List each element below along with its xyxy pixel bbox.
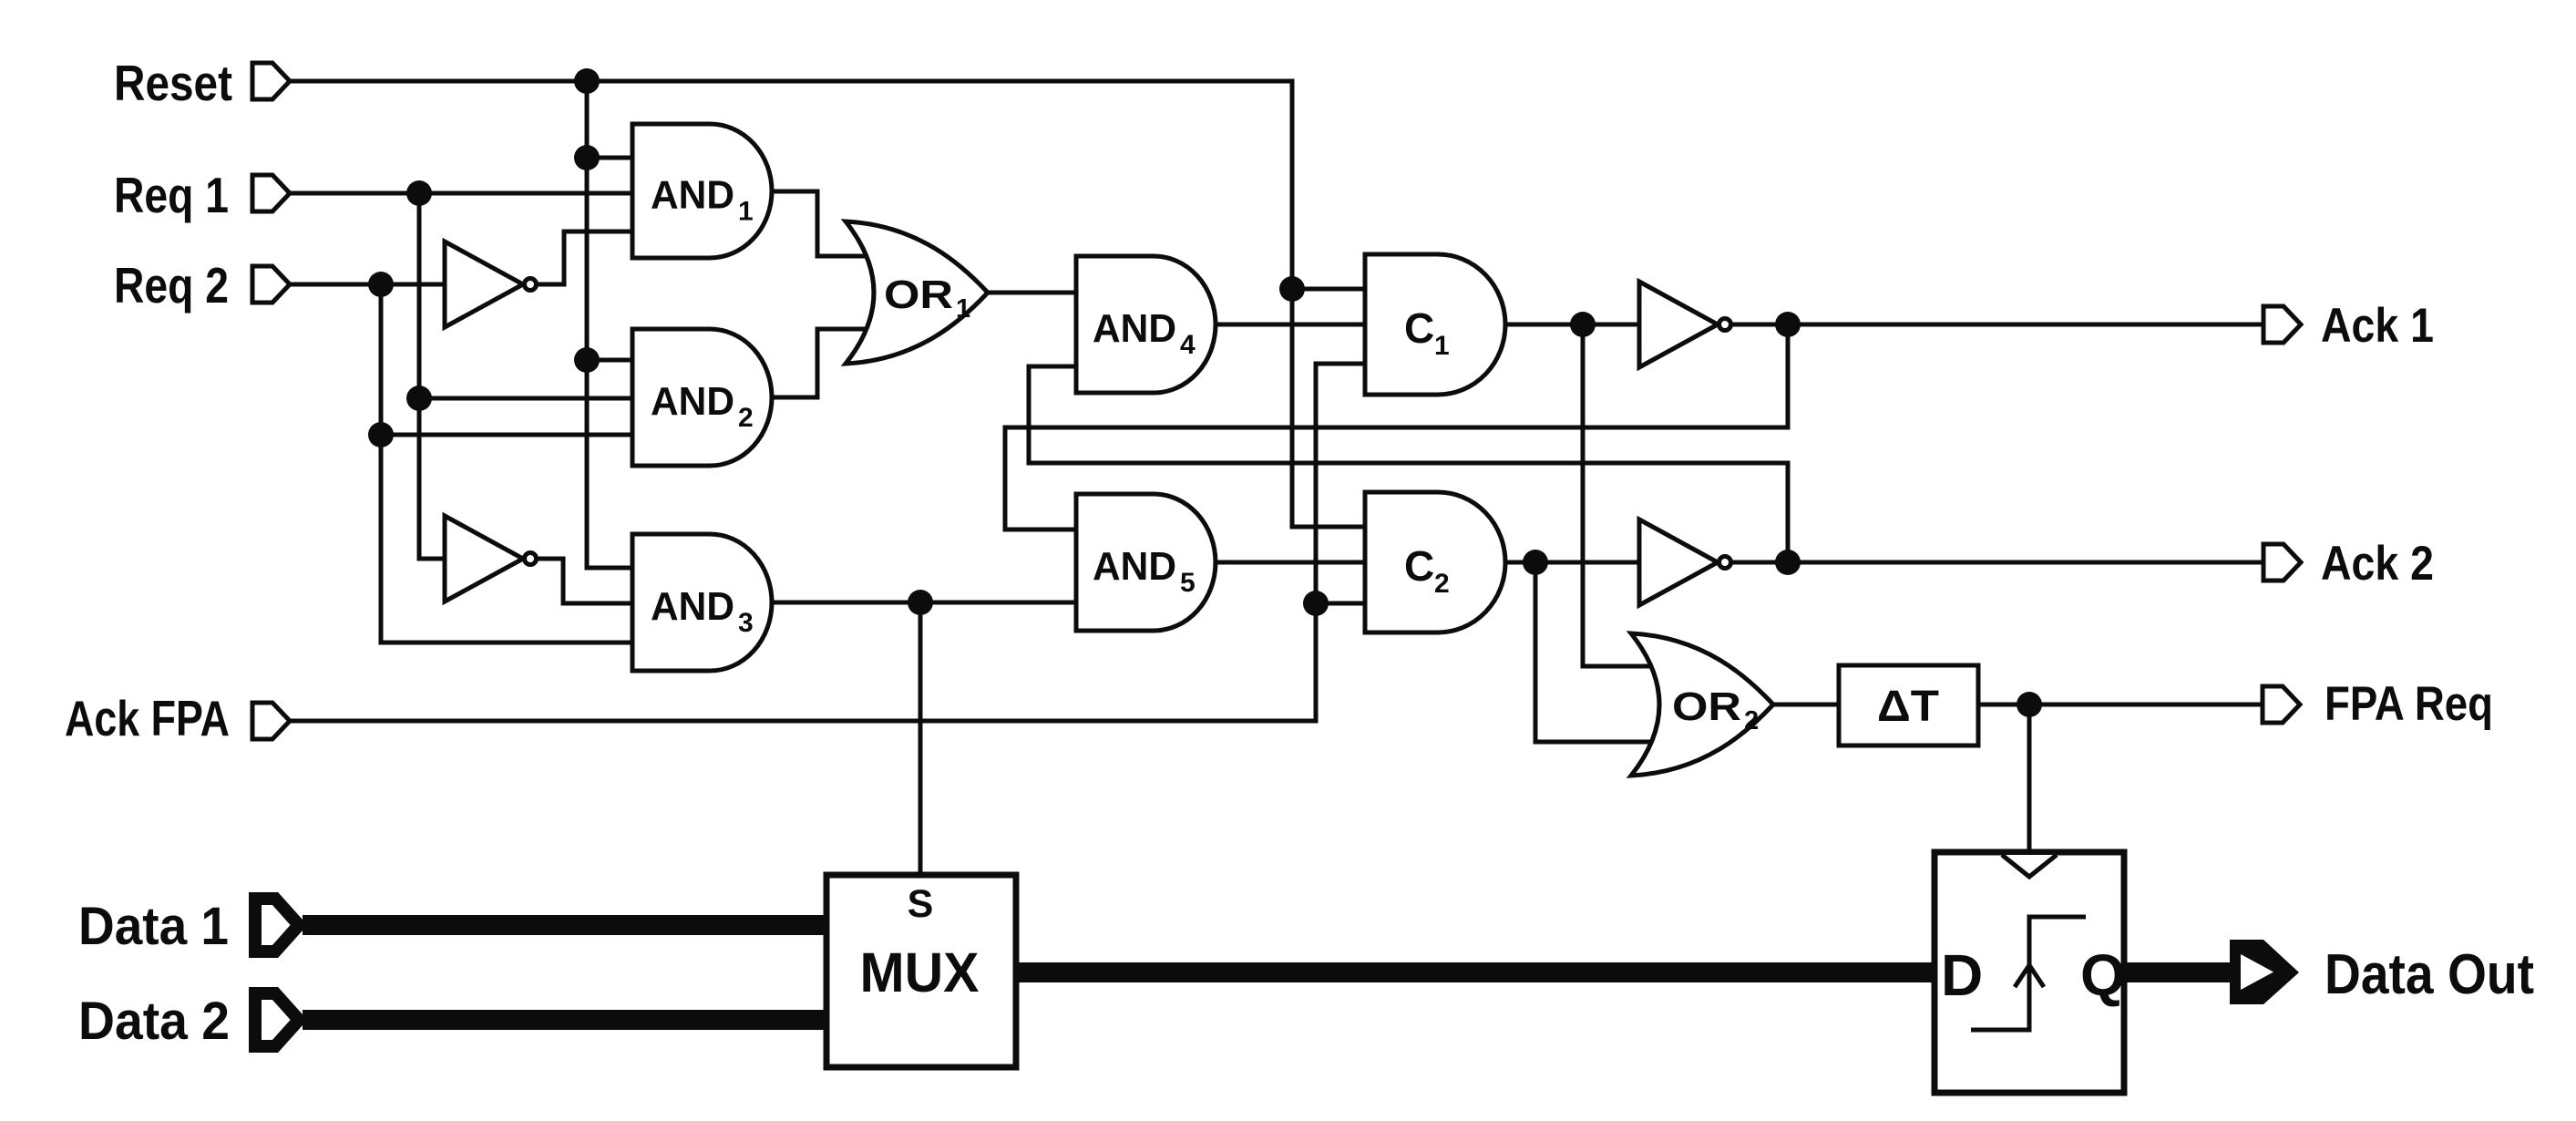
- svg-text:Req 1: Req 1: [114, 167, 229, 223]
- junction Reset vertical to C1 top input: [1279, 276, 1305, 302]
- inverter after Req 1 trunk (inv2): [445, 516, 537, 602]
- c-element C1: [1365, 254, 1505, 395]
- wire node Ack2: inverter4 output to Ack 2 port: [1730, 560, 2263, 565]
- svg-text:Reset: Reset: [114, 55, 232, 111]
- wire Ack FPA run with corner up to C1 bottom input: [290, 364, 1365, 721]
- junction Req 2 split: [368, 272, 394, 297]
- junction Req 2 trunk to AND2: [368, 422, 394, 447]
- d-flip-flop pin label Q: [2080, 942, 2126, 1008]
- wire Reset tap to AND2: [587, 358, 632, 363]
- wire AND5 output to C2 middle input: [1215, 560, 1366, 565]
- and-gate AND3: [632, 534, 772, 671]
- multiplexer MUX: [826, 875, 1016, 1067]
- bus Data 2 to MUX: [303, 1010, 826, 1030]
- wire inverter2 output to AND3: [536, 559, 632, 603]
- svg-text:MUX: MUX: [860, 941, 980, 1003]
- bus MUX output to flip-flop D input: [1016, 962, 1935, 982]
- bus Data 1 to MUX: [303, 915, 826, 935]
- svg-text:OR: OR: [884, 273, 953, 317]
- or-gate OR2: [1631, 633, 1773, 776]
- input port Req 2: [252, 266, 290, 303]
- output port Data Out (bus): [2230, 940, 2299, 1004]
- and-gate AND1: [632, 124, 772, 258]
- wire Req 1 tap to AND2: [419, 396, 632, 401]
- junction Ack FPA vertical to C2 bottom input: [1303, 591, 1329, 616]
- junction Req 1 trunk to AND2: [406, 386, 432, 411]
- svg-text:AND: AND: [651, 584, 734, 629]
- wire node S: AND3 output down to MUX select: [919, 602, 923, 875]
- junction Ack2 node split to feedback: [1775, 550, 1801, 575]
- input port Reset: [252, 63, 290, 99]
- svg-text:2: 2: [738, 403, 754, 433]
- output port Ack 1: [2263, 306, 2301, 343]
- label Ack FPA: [65, 690, 230, 746]
- wire Req 2 tap to AND2: [381, 433, 632, 437]
- input port Data 1 (bus): [255, 899, 299, 951]
- delay element ΔT: [1839, 665, 1978, 746]
- junction Ack1 node split to feedback: [1775, 312, 1801, 337]
- inverter after C1 (inv3): [1639, 282, 1731, 367]
- svg-text:3: 3: [738, 608, 754, 638]
- bus flip-flop Q output to Data Out: [2124, 962, 2234, 982]
- svg-text:ΔT: ΔT: [1877, 683, 1939, 731]
- wire Reset vertical trunk to AND3 top input: [587, 81, 632, 568]
- junction C1 output split to OR2: [1570, 312, 1596, 337]
- junction Reset trunk to AND2: [574, 347, 600, 373]
- label Data 1: [78, 897, 229, 956]
- wire Ack2 feedback to AND4 bottom input: [1029, 366, 1788, 562]
- wire Ack FPA tap to C2 bottom input: [1316, 602, 1366, 606]
- svg-text:4: 4: [1180, 330, 1196, 360]
- svg-text:C: C: [1404, 542, 1434, 590]
- or-gate OR1: [846, 221, 988, 364]
- svg-text:OR: OR: [1672, 684, 1741, 729]
- svg-text:Ack 2: Ack 2: [2321, 537, 2434, 591]
- inverter after Req 2 (inv1): [445, 242, 537, 327]
- svg-text:Ack 1: Ack 1: [2321, 299, 2434, 353]
- junction Reset trunk to AND1: [574, 145, 600, 170]
- junction Req 1 split: [406, 180, 432, 206]
- svg-text:AND: AND: [651, 379, 734, 424]
- wire Reset main run with corner down to C2 top input: [290, 81, 1365, 527]
- svg-text:Data 2: Data 2: [78, 992, 230, 1051]
- label Ack 2: [2321, 537, 2434, 591]
- svg-text:5: 5: [1180, 568, 1196, 598]
- wire C2 output branch down to OR2 bottom input: [1535, 562, 1677, 742]
- d-flip-flop clock chevron: [2002, 855, 2057, 877]
- svg-text:Ack FPA: Ack FPA: [65, 690, 230, 746]
- svg-text:FPA Req: FPA Req: [2325, 677, 2493, 731]
- input port Ack FPA: [252, 703, 290, 739]
- wire node Ack1: inverter3 output to Ack 1 port: [1730, 323, 2263, 327]
- svg-text:Q: Q: [2080, 942, 2126, 1008]
- wire FPA Req: delay output to port: [1978, 703, 2263, 707]
- wire Reset tap to AND1: [587, 156, 632, 160]
- wire C1 output to inverter3: [1505, 323, 1639, 327]
- wire AND3 output to AND5 bottom input: [773, 601, 1076, 605]
- input port Data 2 (bus): [255, 993, 299, 1046]
- wire OR1 output to AND4: [988, 291, 1076, 295]
- svg-text:C: C: [1404, 304, 1434, 352]
- label Data 2: [78, 992, 230, 1051]
- d-flip-flop pin label D: [1941, 942, 1983, 1008]
- junction AND3 output to MUX select: [908, 590, 933, 615]
- svg-text:Data 1: Data 1: [78, 897, 229, 956]
- svg-text:AND: AND: [1093, 544, 1176, 589]
- wire AND1 output to OR1 top input: [773, 191, 888, 256]
- junction FPA Req split to clock: [2017, 692, 2042, 717]
- svg-text:1: 1: [956, 294, 970, 324]
- junction C2 output split to OR2: [1523, 550, 1548, 575]
- and-gate AND2: [632, 329, 772, 466]
- wire OR2 output to delay element: [1774, 703, 1839, 707]
- wire C2 output to inverter4: [1505, 560, 1639, 565]
- svg-text:2: 2: [1744, 706, 1759, 735]
- svg-text:1: 1: [1434, 331, 1450, 361]
- svg-text:D: D: [1941, 942, 1983, 1008]
- wire clock: FPA Req down to flip-flop clock pin: [2027, 704, 2032, 855]
- wire C1 output branch down to OR2 top input: [1583, 324, 1668, 666]
- label Ack 1: [2321, 299, 2434, 353]
- svg-text:Data Out: Data Out: [2325, 943, 2534, 1006]
- and-gate AND5: [1076, 494, 1216, 631]
- and-gate AND4: [1076, 256, 1216, 393]
- output port FPA Req: [2263, 686, 2300, 723]
- output port Ack 2: [2263, 544, 2301, 581]
- wire AND4 output to C1 middle input: [1215, 323, 1365, 327]
- wire Req 2 to inverter1 input: [290, 283, 445, 287]
- svg-text:1: 1: [738, 197, 754, 227]
- wire AND2 output to OR1 bottom input: [773, 329, 888, 397]
- label Req 2: [114, 257, 229, 314]
- inverter after C2 (inv4): [1639, 519, 1731, 605]
- label FPA Req: [2325, 677, 2493, 731]
- c-element C2: [1365, 492, 1505, 632]
- svg-text:S: S: [908, 882, 934, 926]
- label Reset: [114, 55, 232, 111]
- input port Req 1: [252, 175, 290, 211]
- d-flip-flop rising-edge symbol: [1971, 917, 2086, 1030]
- label Data Out: [2325, 943, 2534, 1006]
- svg-text:Req 2: Req 2: [114, 257, 229, 314]
- label Req 1: [114, 167, 229, 223]
- wire Reset tap to C1 top input: [1292, 287, 1365, 292]
- wire Req 1 vertical trunk to inverter2 input: [419, 193, 445, 559]
- d-flip-flop U1 box: [1935, 852, 2124, 1093]
- svg-text:AND: AND: [1093, 306, 1176, 351]
- wire Ack1 feedback to AND5 top input: [1005, 324, 1788, 530]
- junction Reset split at trunk: [574, 68, 600, 94]
- svg-text:2: 2: [1434, 569, 1450, 599]
- wire Req 1 to AND1: [290, 191, 632, 196]
- wire inverter1 output to AND1: [536, 231, 632, 284]
- wire Req 2 vertical trunk to AND3 bottom input: [381, 284, 632, 643]
- svg-text:AND: AND: [651, 173, 734, 218]
